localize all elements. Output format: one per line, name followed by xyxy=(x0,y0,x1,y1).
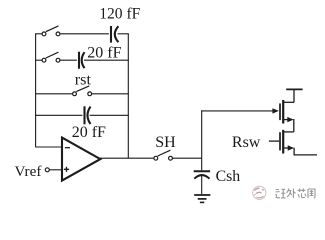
wire M2 gate stub xyxy=(269,140,279,142)
wire right feedback bus xyxy=(127,34,129,158)
op-amp U1 xyxy=(62,138,100,181)
wire row2 left segment xyxy=(35,59,42,61)
switch SH xyxy=(154,150,173,160)
wire row1 left segment xyxy=(35,33,42,35)
svg-text:SH: SH xyxy=(155,134,176,151)
capacitor Csh xyxy=(194,171,210,179)
wire M2 source down and right xyxy=(294,148,317,155)
wire row4 right segment xyxy=(90,114,129,116)
transistor M1 (top) xyxy=(280,100,294,124)
wire row3 left segment xyxy=(35,93,72,95)
wire Csh to ground xyxy=(201,176,203,194)
wire gate feed xyxy=(201,110,273,112)
svg-text:120 fF: 120 fF xyxy=(99,5,140,22)
switch S2 xyxy=(42,52,60,62)
wire M1 source to M2 drain xyxy=(293,119,295,132)
wire non-inverting input xyxy=(49,169,61,171)
wire inverting input xyxy=(35,146,61,148)
svg-text:Csh: Csh xyxy=(216,168,241,185)
watermark logo icon xyxy=(253,186,266,199)
watermark text 红外芯闻 xyxy=(275,189,315,199)
wire left feedback bus xyxy=(35,34,37,147)
arrow into M1 gate xyxy=(272,108,279,113)
power rail T symbol xyxy=(286,89,302,102)
svg-text:rst: rst xyxy=(75,71,92,89)
capacitor C2 20fF xyxy=(79,52,85,69)
wire row3 right segment xyxy=(92,93,129,95)
wire row2 right segment xyxy=(84,59,129,61)
transistor M2 (bottom) xyxy=(280,130,294,154)
capacitor C3 20fF integrator xyxy=(85,106,91,124)
wire SH to node xyxy=(172,157,201,159)
capacitor C1 120fF xyxy=(111,26,118,43)
node Csh vertical xyxy=(201,110,203,170)
switch S3 rst xyxy=(73,86,92,96)
switch S1 xyxy=(42,26,60,36)
wire row2 middle segment xyxy=(60,59,77,61)
ground xyxy=(194,195,210,202)
svg-text:Rsw: Rsw xyxy=(232,134,261,151)
svg-text:20 fF: 20 fF xyxy=(72,124,106,141)
wire op-amp output xyxy=(100,157,154,159)
node Vref terminal xyxy=(45,168,49,172)
svg-text:Vref: Vref xyxy=(15,163,43,180)
wire row4 left segment xyxy=(35,114,82,116)
wire row1 right segment xyxy=(118,33,129,35)
wire row1 middle segment xyxy=(60,33,109,35)
svg-text:20 fF: 20 fF xyxy=(87,44,121,61)
